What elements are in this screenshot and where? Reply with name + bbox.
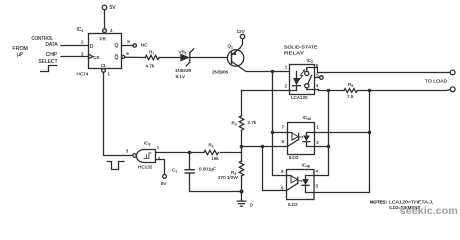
svg-text:16k: 16k: [211, 156, 219, 161]
svg-text:NC: NC: [141, 43, 148, 48]
svg-text:270 1/2W: 270 1/2W: [218, 175, 238, 180]
svg-text:D: D: [250, 203, 253, 208]
svg-text:6: 6: [281, 169, 284, 174]
svg-text:DATA: DATA: [46, 42, 59, 48]
svg-text:IC1: IC1: [77, 27, 84, 33]
svg-text:4.7k: 4.7k: [146, 63, 155, 68]
svg-text:1: 1: [285, 65, 288, 70]
svg-text:Q1: Q1: [228, 43, 234, 49]
svg-text:3: 3: [316, 183, 319, 188]
svg-text:R5: R5: [348, 82, 353, 88]
svg-text:IC2: IC2: [307, 58, 314, 64]
svg-text:1N5239: 1N5239: [175, 68, 192, 73]
svg-text:TO LOAD: TO LOAD: [425, 79, 448, 84]
svg-text:0.001µF: 0.001µF: [199, 167, 216, 172]
svg-text:1: 1: [316, 124, 319, 129]
svg-text:R1: R1: [149, 49, 154, 55]
svg-text:4: 4: [316, 83, 319, 88]
svg-text:2N3906: 2N3906: [212, 70, 229, 75]
svg-text:VR1: VR1: [179, 49, 187, 55]
svg-text:2: 2: [158, 156, 161, 161]
svg-text:2: 2: [81, 39, 84, 44]
svg-text:LCA120: LCA120: [291, 95, 308, 100]
svg-text:1: 1: [108, 72, 111, 77]
svg-text:7.5: 7.5: [347, 94, 354, 99]
svg-text:9.1V: 9.1V: [176, 74, 186, 79]
svg-text:NOTES:: NOTES:: [370, 199, 388, 204]
svg-text:SOLID-STATE: SOLID-STATE: [284, 44, 318, 50]
svg-text:12V: 12V: [237, 29, 246, 34]
svg-text:FROM: FROM: [12, 46, 28, 52]
svg-text:IC4A: IC4A: [303, 115, 312, 121]
svg-text:HC132: HC132: [138, 164, 153, 169]
svg-text:2: 2: [316, 140, 319, 145]
svg-text:CL: CL: [101, 63, 107, 68]
svg-text:µP: µP: [17, 52, 24, 58]
svg-text:2: 2: [285, 84, 288, 89]
svg-text:PR: PR: [100, 36, 107, 41]
svg-text:1: 1: [157, 145, 160, 150]
svg-text:5V: 5V: [110, 5, 117, 11]
svg-text:7: 7: [282, 124, 285, 129]
svg-text:6: 6: [316, 63, 319, 68]
svg-text:CHIP: CHIP: [46, 52, 58, 58]
svg-text:5: 5: [127, 39, 130, 44]
svg-text:C1: C1: [172, 167, 177, 173]
svg-text:seekic.com: seekic.com: [400, 206, 458, 217]
svg-text:LCA120=THETA-J,: LCA120=THETA-J,: [389, 199, 434, 204]
svg-text:RELAY: RELAY: [284, 51, 305, 57]
svg-text:SELECT: SELECT: [38, 59, 57, 65]
svg-text:8: 8: [282, 139, 285, 144]
svg-text:Q̅: Q̅: [114, 54, 118, 61]
svg-text:IC4B: IC4B: [302, 162, 311, 168]
svg-text:4: 4: [110, 28, 113, 33]
svg-text:3: 3: [81, 51, 84, 56]
svg-text:5: 5: [281, 185, 284, 190]
svg-text:4: 4: [316, 169, 319, 174]
svg-text:R3: R3: [232, 120, 237, 126]
svg-text:Q: Q: [115, 43, 119, 49]
svg-text:3: 3: [126, 149, 129, 154]
svg-text:HC74: HC74: [77, 72, 89, 77]
svg-text:R2: R2: [209, 143, 214, 149]
svg-text:ILD2: ILD2: [289, 155, 299, 160]
svg-text:D: D: [90, 44, 94, 50]
svg-text:ILD2: ILD2: [288, 202, 298, 207]
svg-text:CK: CK: [93, 55, 100, 61]
svg-text:IC3: IC3: [144, 141, 151, 147]
svg-text:2.7k: 2.7k: [248, 120, 257, 125]
svg-text:6: 6: [126, 51, 129, 56]
svg-text:5V: 5V: [161, 181, 168, 186]
